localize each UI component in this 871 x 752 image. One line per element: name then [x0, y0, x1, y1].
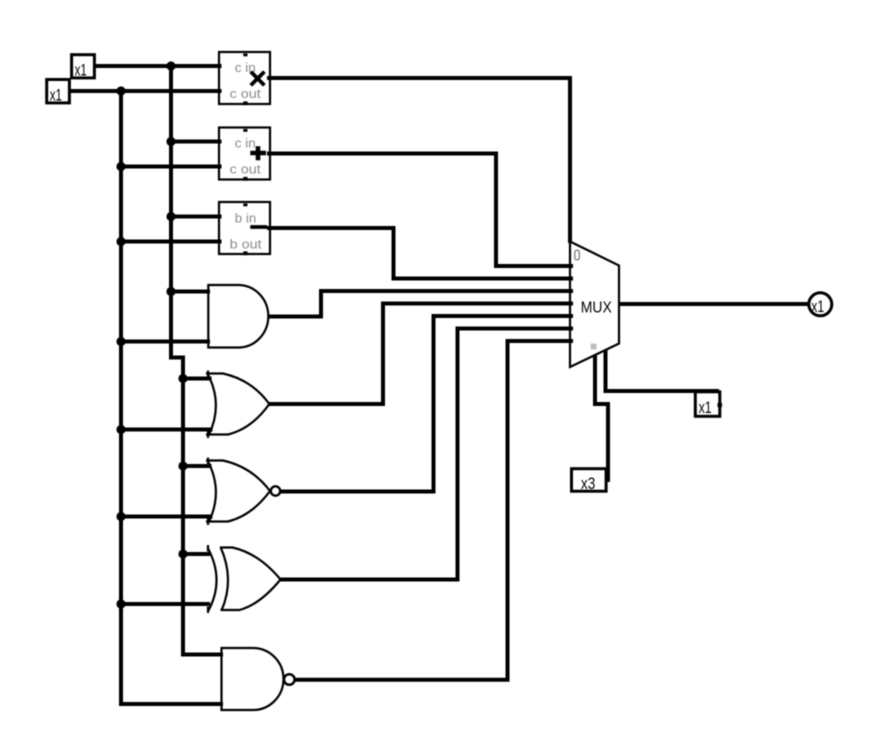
svg-text:x3: x3 [581, 474, 595, 493]
svg-text:b in: b in [235, 211, 256, 226]
svg-text:c out: c out [230, 86, 261, 101]
svg-text:b out: b out [230, 237, 262, 252]
svg-text:x1: x1 [50, 85, 62, 104]
svg-text:x1: x1 [75, 60, 87, 79]
svg-text:c out: c out [230, 162, 261, 177]
svg-text:c in: c in [235, 136, 256, 151]
svg-text:x1: x1 [699, 398, 712, 417]
svg-text:x1: x1 [811, 297, 824, 316]
svg-text:MUX: MUX [581, 300, 612, 317]
